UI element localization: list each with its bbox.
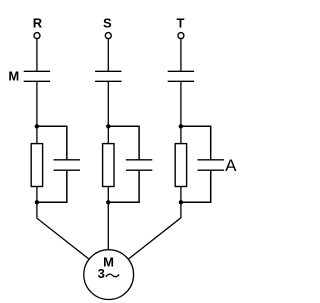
wire S terminal to contact [107, 39, 109, 71]
node R bottom junction [35, 200, 39, 204]
contactor contact phase T [168, 70, 194, 72]
wire R to motor [37, 202, 109, 274]
svg-text:T: T [177, 16, 185, 31]
wire T terminal to contact [180, 39, 182, 71]
node T top junction [179, 124, 183, 128]
wire R main through resistor [36, 126, 38, 202]
wire T top junction to cap branch [181, 125, 211, 127]
wire R contact to node [36, 82, 38, 127]
wire T contact to node [180, 82, 182, 127]
wire S main through resistor [107, 126, 109, 202]
contactor contact M phase R [24, 70, 50, 72]
node R top junction [35, 124, 39, 128]
wire S to motor [107, 202, 109, 274]
wire T cap branch to bottom junction [181, 201, 211, 203]
resistor phase T [175, 144, 186, 187]
terminal circle T [178, 33, 184, 39]
svg-text:R: R [33, 16, 43, 31]
wire S cap branch lower [138, 171, 140, 203]
wire S top junction to cap branch [108, 125, 139, 127]
wire T to motor [109, 202, 181, 274]
capacitor phase R [54, 159, 80, 161]
resistor phase R [31, 144, 42, 187]
wire T cap branch upper [210, 126, 212, 160]
capacitor phase S [126, 159, 152, 161]
wire T cap branch lower [210, 171, 212, 203]
wire R top junction to cap branch [37, 125, 67, 127]
terminal circle S [105, 33, 111, 39]
wire T main through resistor [180, 126, 182, 202]
capacitor phase T [198, 159, 224, 161]
terminal circle R [34, 33, 40, 39]
wire R cap branch to bottom junction [37, 201, 67, 203]
svg-text:S: S [103, 16, 112, 31]
wire S cap branch upper [138, 126, 140, 160]
wire S cap branch to bottom junction [108, 201, 139, 203]
svg-text:A: A [225, 156, 237, 175]
wire R cap branch upper [66, 126, 68, 160]
wire S contact to node [107, 82, 109, 127]
wire R cap branch lower [66, 171, 68, 203]
svg-text:M: M [8, 69, 19, 84]
contactor contact phase S [95, 70, 121, 72]
motor ac sine symbol [106, 274, 119, 277]
node S top junction [106, 124, 110, 128]
wire R terminal to contact [36, 39, 38, 71]
motor M1 circle [84, 250, 134, 300]
node S bottom junction [106, 200, 110, 204]
resistor phase S [103, 144, 114, 187]
node T bottom junction [179, 200, 183, 204]
svg-text:3: 3 [98, 266, 105, 281]
